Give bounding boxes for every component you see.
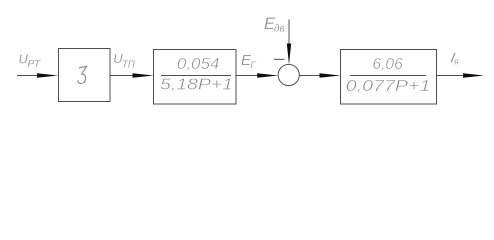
svg-text:ТП: ТП	[122, 59, 136, 70]
svg-text:я: я	[453, 57, 459, 67]
svg-text:дв: дв	[274, 23, 285, 35]
svg-text:РТ: РТ	[27, 59, 41, 70]
svg-text:5,18Р+1: 5,18Р+1	[160, 77, 233, 94]
svg-text:6,06: 6,06	[372, 56, 402, 73]
svg-text:0,054: 0,054	[177, 56, 220, 73]
svg-text:0,077Р+1: 0,077Р+1	[346, 78, 431, 95]
